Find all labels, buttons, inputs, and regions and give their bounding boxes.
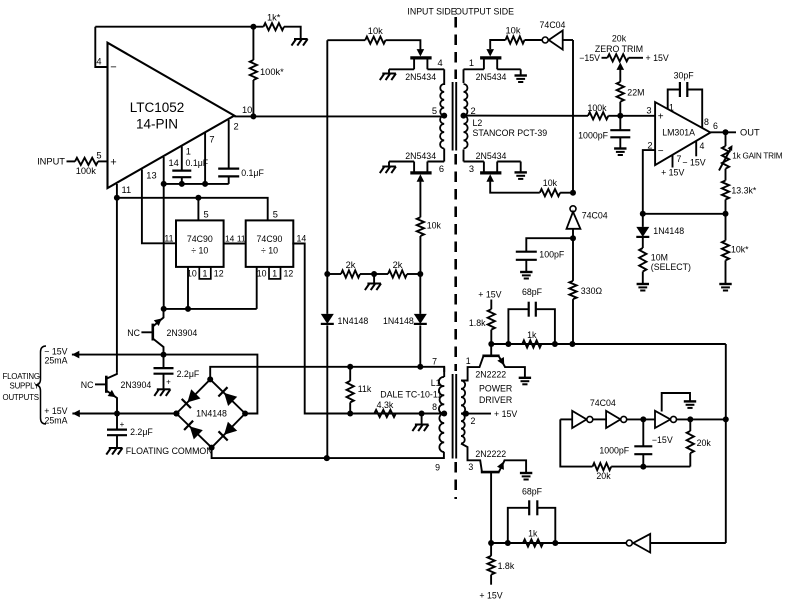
svg-text:−: − [658, 146, 664, 157]
svg-text:10: 10 [257, 269, 267, 279]
svg-text:+: + [166, 377, 171, 386]
svg-text:STANCOR PCT-39: STANCOR PCT-39 [473, 128, 548, 138]
svg-text:11: 11 [237, 234, 246, 244]
svg-text:1: 1 [466, 356, 471, 366]
svg-text:10k: 10k [543, 178, 558, 188]
svg-text:INPUT: INPUT [37, 157, 65, 167]
svg-text:LM301A: LM301A [662, 128, 695, 138]
svg-text:2: 2 [647, 140, 652, 150]
svg-text:1.8k: 1.8k [498, 561, 515, 571]
svg-text:7: 7 [677, 154, 682, 164]
svg-text:+ 15V: + 15V [661, 168, 684, 178]
svg-text:2N5434: 2N5434 [476, 72, 507, 82]
svg-text:14: 14 [225, 234, 235, 244]
svg-text:2N2222: 2N2222 [475, 449, 506, 459]
svg-text:74C90: 74C90 [187, 234, 213, 244]
svg-text:74C04: 74C04 [582, 210, 608, 220]
svg-text:4: 4 [96, 57, 101, 67]
svg-text:ZERO TRIM: ZERO TRIM [595, 44, 643, 54]
svg-text:13: 13 [146, 170, 156, 180]
svg-text:+: + [120, 420, 125, 429]
svg-text:100pF: 100pF [539, 250, 565, 260]
svg-text:1: 1 [272, 269, 277, 279]
svg-text:6: 6 [439, 164, 444, 174]
svg-text:2: 2 [471, 416, 476, 426]
svg-text:25mA: 25mA [45, 356, 68, 366]
svg-text:11k: 11k [358, 384, 372, 394]
svg-text:14: 14 [169, 158, 179, 168]
svg-text:10: 10 [242, 105, 252, 115]
svg-text:20k: 20k [697, 438, 712, 448]
svg-text:100k*: 100k* [260, 67, 284, 77]
svg-text:−: − [110, 62, 116, 74]
svg-text:2.2μF: 2.2μF [177, 369, 200, 379]
svg-text:÷ 10: ÷ 10 [191, 246, 208, 256]
svg-text:1: 1 [669, 103, 674, 113]
svg-text:L2: L2 [473, 118, 483, 128]
svg-text:4: 4 [700, 141, 705, 151]
svg-text:5: 5 [273, 210, 278, 220]
svg-text:2N2222: 2N2222 [475, 370, 506, 380]
svg-text:+ 15V: + 15V [646, 53, 669, 63]
svg-text:SUPPLY: SUPPLY [10, 382, 40, 391]
svg-text:6: 6 [713, 121, 718, 131]
svg-text:4.3k: 4.3k [377, 400, 394, 410]
svg-text:68pF: 68pF [522, 287, 543, 297]
svg-text:2N5434: 2N5434 [405, 151, 436, 161]
svg-text:74C04: 74C04 [590, 398, 616, 408]
svg-text:2.2μF: 2.2μF [130, 427, 153, 437]
svg-text:÷ 10: ÷ 10 [261, 246, 278, 256]
svg-text:1N4148: 1N4148 [196, 409, 227, 419]
svg-text:+: + [658, 112, 664, 123]
svg-text:2N3904: 2N3904 [167, 328, 198, 338]
svg-text:25mA: 25mA [45, 416, 68, 426]
svg-text:100k: 100k [76, 166, 97, 176]
svg-text:1.8k: 1.8k [469, 318, 486, 328]
svg-text:1: 1 [469, 58, 474, 68]
svg-text:DALE TC-10-11: DALE TC-10-11 [380, 390, 442, 400]
svg-text:2N5434: 2N5434 [405, 72, 436, 82]
svg-text:2: 2 [234, 122, 239, 132]
svg-text:74C90: 74C90 [257, 234, 283, 244]
svg-text:22M: 22M [627, 87, 644, 97]
svg-text:1k: 1k [528, 528, 538, 538]
svg-text:+: + [110, 157, 116, 169]
svg-text:2k: 2k [393, 260, 403, 270]
svg-text:POWER: POWER [479, 383, 512, 393]
svg-text:L1: L1 [431, 378, 441, 388]
svg-text:1000pF: 1000pF [599, 446, 629, 456]
svg-text:1N4148: 1N4148 [383, 316, 414, 326]
svg-text:330Ω: 330Ω [581, 286, 603, 296]
svg-text:7: 7 [209, 135, 214, 145]
svg-text:2N5434: 2N5434 [476, 151, 507, 161]
svg-text:1k*: 1k* [267, 13, 281, 23]
svg-text:10k: 10k [427, 221, 442, 231]
svg-text:2k: 2k [346, 260, 356, 270]
svg-text:14-PIN: 14-PIN [136, 117, 178, 132]
svg-text:1: 1 [186, 146, 191, 156]
svg-text:−15V: −15V [652, 435, 673, 445]
svg-text:1: 1 [203, 269, 208, 279]
svg-text:1N4148: 1N4148 [653, 226, 684, 236]
svg-text:5: 5 [432, 106, 437, 116]
svg-text:OUTPUTS: OUTPUTS [3, 393, 39, 402]
svg-text:8: 8 [432, 402, 437, 412]
svg-text:20k: 20k [596, 471, 611, 481]
svg-text:30pF: 30pF [674, 71, 695, 81]
svg-text:100k: 100k [587, 103, 607, 113]
svg-text:10k*: 10k* [731, 245, 749, 255]
svg-text:INPUT SIDE: INPUT SIDE [407, 6, 456, 16]
svg-text:11: 11 [122, 185, 132, 195]
svg-text:NC: NC [127, 328, 140, 338]
svg-text:7: 7 [432, 356, 437, 366]
svg-text:2: 2 [471, 106, 476, 116]
svg-text:1k GAIN TRIM: 1k GAIN TRIM [732, 151, 783, 160]
svg-text:1k: 1k [527, 330, 537, 340]
svg-text:12: 12 [284, 269, 294, 279]
svg-text:2N3904: 2N3904 [121, 380, 152, 390]
svg-text:1000pF: 1000pF [578, 130, 608, 140]
svg-text:5: 5 [204, 210, 209, 220]
svg-text:0.1μF: 0.1μF [241, 168, 264, 178]
svg-text:1N4148: 1N4148 [338, 316, 369, 326]
svg-text:+ 15V: + 15V [494, 409, 517, 419]
svg-text:OUTPUT SIDE: OUTPUT SIDE [455, 6, 514, 16]
svg-text:5: 5 [96, 151, 101, 161]
svg-text:10k: 10k [368, 26, 383, 36]
svg-text:20k: 20k [612, 34, 627, 44]
svg-text:NC: NC [81, 380, 94, 390]
svg-text:12: 12 [214, 269, 224, 279]
svg-text:+ 15V: + 15V [479, 590, 502, 600]
svg-text:−15V: −15V [579, 53, 600, 63]
svg-text:11: 11 [164, 234, 173, 244]
svg-text:− 15V: − 15V [682, 158, 705, 168]
svg-text:74C04: 74C04 [540, 20, 566, 30]
svg-text:4: 4 [438, 58, 443, 68]
svg-text:LTC1052: LTC1052 [130, 100, 185, 115]
svg-text:3: 3 [468, 462, 473, 472]
svg-text:DRIVER: DRIVER [479, 395, 512, 405]
svg-text:9: 9 [435, 462, 440, 472]
svg-text:68pF: 68pF [522, 486, 543, 496]
svg-text:+ 15V: + 15V [478, 289, 501, 299]
svg-text:10k: 10k [506, 26, 521, 36]
svg-text:(SELECT): (SELECT) [651, 262, 691, 272]
svg-text:OUT: OUT [740, 128, 760, 138]
svg-text:14: 14 [297, 234, 307, 244]
svg-text:FLOATING COMMON: FLOATING COMMON [126, 446, 213, 456]
svg-text:8: 8 [704, 117, 709, 127]
svg-text:FLOATING: FLOATING [3, 372, 40, 381]
svg-text:3: 3 [646, 105, 651, 115]
svg-text:13.3k*: 13.3k* [731, 185, 757, 195]
svg-text:3: 3 [469, 164, 474, 174]
